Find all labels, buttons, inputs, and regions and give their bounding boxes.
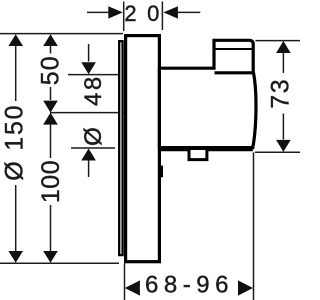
dim 100 line bottom [50,205,52,251]
svg-text:2 0: 2 0 [124,1,161,26]
pipe collar line [215,48,253,50]
svg-text:Ø 150: Ø 150 [1,104,29,181]
dim 48 upper arrow [88,44,90,62]
dim 20 right v-extension [161,2,163,31]
bump on plate right edge [160,166,164,178]
svg-text:68-96: 68-96 [145,271,234,298]
valve body with top pipe [159,40,256,147]
back plate (wall sleeve) [119,41,122,255]
dim 20 right leader [163,6,178,18]
extension line plate-bottom level [0,262,119,264]
body bottom edge (thicker) [159,148,252,151]
bottom tab [189,150,207,160]
dim 73 bottom extension [255,151,300,153]
dim 68-96 arrows [125,280,140,295]
pipe/body junction line [215,71,253,74]
dim 68-96 right v-extension [253,152,255,300]
dim 73 top extension [256,40,301,42]
extension line dim48 bottom [71,147,115,149]
svg-text:Ø 48: Ø 48 [80,74,107,146]
front escutcheon plate [126,36,160,262]
dim 50/100 shared arrows [50,87,52,100]
dim 50 line top [43,34,58,46]
dim 20 left v-extension [123,2,125,32]
dim 73 line [276,41,291,53]
extension line 50/100 split [50,112,127,114]
body right edge emphasis [253,71,256,148]
dim 150 line bottom [15,185,17,251]
svg-text:50: 50 [36,55,64,85]
extension line plate-top level [0,33,123,35]
svg-text:100: 100 [37,160,65,203]
extension line dim48 top [68,74,118,76]
dim 150 line top [8,34,23,46]
dim 20 left leader [87,11,109,13]
dim 48 lower arrow [81,149,96,161]
dim 68-96 left v-extension [124,263,126,300]
svg-text:73: 73 [267,78,295,109]
